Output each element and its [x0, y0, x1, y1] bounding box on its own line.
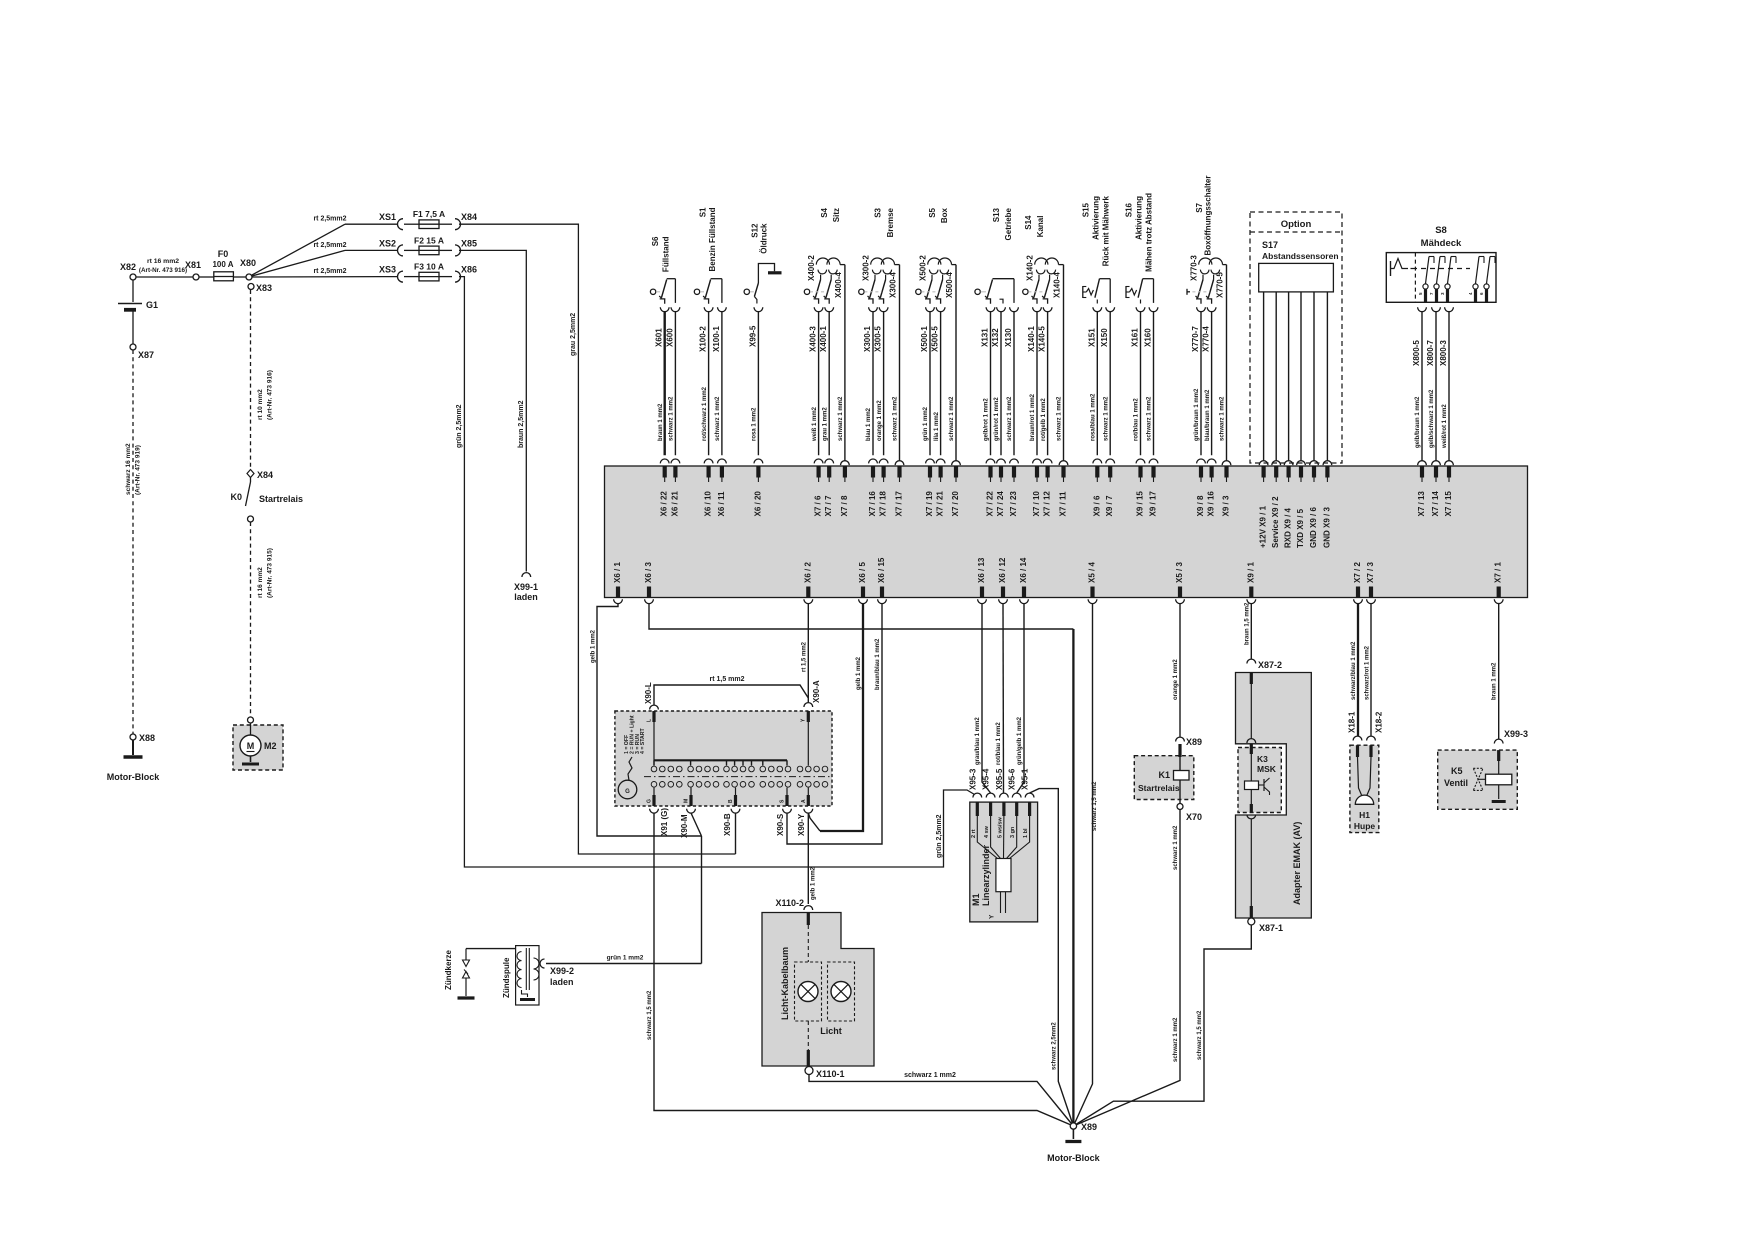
wire S17 Service X9/2	[1272, 292, 1281, 482]
fuse F3 10 A	[414, 262, 444, 281]
pin X6/13	[977, 557, 986, 604]
svg-text:F2 15 A: F2 15 A	[414, 235, 444, 245]
svg-text:Box: Box	[940, 207, 949, 223]
lamp holder right	[828, 962, 855, 1021]
svg-text:100 A: 100 A	[212, 260, 233, 269]
wire X400-1 grau 1 mm2	[822, 312, 833, 482]
svg-text:K3: K3	[1257, 754, 1268, 764]
connector X86	[455, 265, 477, 283]
switch S16	[1126, 279, 1154, 304]
wire X5/4 to X89	[1073, 604, 1098, 1126]
svg-text:X90-B: X90-B	[723, 813, 732, 836]
wire S17 TXD X9/5	[1297, 292, 1306, 482]
connector XS3	[379, 265, 403, 283]
svg-text:S15: S15	[1081, 202, 1090, 217]
connector XS1	[379, 212, 403, 230]
svg-text:X9 / 1: X9 / 1	[1246, 562, 1255, 583]
node X89	[1070, 1122, 1097, 1132]
svg-text:gelb/rot 1 mm2: gelb/rot 1 mm2	[984, 398, 990, 441]
pin X5/3	[1175, 562, 1184, 604]
connector X70	[1177, 804, 1202, 823]
svg-text:X300-1: X300-1	[863, 326, 872, 352]
svg-text:X6 / 3: X6 / 3	[644, 562, 653, 583]
svg-text:X600: X600	[665, 328, 674, 347]
svg-text:RXD X9 / 4: RXD X9 / 4	[1284, 507, 1293, 548]
pin X6/22	[660, 491, 669, 517]
svg-text:X800-7: X800-7	[1426, 340, 1435, 366]
wire X90-Y to X6/5 gelb 1 mm2	[808, 604, 863, 831]
ignition pin letter M	[684, 799, 690, 803]
svg-text:X500-1: X500-1	[920, 326, 929, 352]
svg-text:X87: X87	[138, 350, 154, 360]
wire X6/1 gelb 1 mm2	[591, 604, 702, 836]
svg-text:X5 / 3: X5 / 3	[1175, 562, 1184, 583]
wire X87-1 internal lower	[1247, 804, 1256, 918]
wire X300-1 blau 1 mm2	[866, 312, 877, 482]
svg-text:orange 1 mm2: orange 1 mm2	[1173, 659, 1179, 700]
ground Zuendspule	[520, 998, 535, 1001]
pin X9/8	[1196, 495, 1205, 516]
connector X99-2 laden	[540, 959, 574, 987]
svg-text:X9 / 6: X9 / 6	[1092, 495, 1101, 516]
svg-text:X9 / 8: X9 / 8	[1196, 495, 1205, 516]
svg-text:X9 / 17: X9 / 17	[1149, 491, 1158, 517]
connector X100-1	[712, 307, 726, 352]
svg-text:X770-5: X770-5	[1216, 272, 1225, 298]
svg-text:X140-2: X140-2	[1026, 255, 1035, 281]
svg-text:rot/blau 1 mm2: rot/blau 1 mm2	[1134, 398, 1140, 441]
wire X770-7 grün/braun 1 mm2	[1194, 312, 1205, 482]
switch S7	[1187, 258, 1227, 304]
svg-text:braun 2,5mm2: braun 2,5mm2	[518, 400, 525, 448]
ignition contact rows	[651, 766, 828, 787]
connector X110-1	[805, 1067, 845, 1080]
pin GND X9/3	[1322, 507, 1331, 548]
switch S3 label	[874, 207, 895, 237]
wire S17 RXD X9/4	[1284, 292, 1293, 482]
valve K5 box	[1438, 750, 1518, 809]
svg-text:grün 1 mm2: grün 1 mm2	[923, 406, 929, 441]
svg-text:X90-Y: X90-Y	[797, 813, 806, 836]
svg-text:X7 / 1: X7 / 1	[1494, 562, 1503, 583]
connector X110-2	[775, 898, 812, 910]
svg-text:rt 1,5 mm2: rt 1,5 mm2	[802, 641, 808, 672]
pin X9/7	[1105, 495, 1114, 516]
connector X500-1	[920, 307, 934, 352]
wire X500-5 lila 1 mm2	[934, 312, 945, 482]
svg-text:X6 / 1: X6 / 1	[613, 562, 622, 583]
svg-text:X99-2: X99-2	[550, 966, 574, 976]
svg-text:X88: X88	[139, 733, 155, 743]
svg-text:X6 / 14: X6 / 14	[1019, 557, 1028, 583]
wire fuse-X86	[439, 276, 452, 278]
svg-text:Rück mit Mähwerk: Rück mit Mähwerk	[1101, 195, 1110, 266]
pin X6/14	[1019, 557, 1028, 604]
pin X7/23	[1009, 491, 1018, 517]
pin X6/2	[803, 562, 812, 604]
relay K0 Startrelais switch	[230, 478, 303, 507]
svg-text:rosa/blau 1 mm2: rosa/blau 1 mm2	[1091, 393, 1097, 441]
svg-text:schwarz 1 mm2: schwarz 1 mm2	[715, 396, 721, 441]
svg-text:X800-3: X800-3	[1439, 340, 1448, 366]
svg-text:X300-4: X300-4	[889, 272, 898, 298]
pin X6/21	[670, 491, 679, 517]
pin Service X9/2	[1271, 496, 1280, 548]
svg-text:X7 / 16: X7 / 16	[868, 491, 877, 517]
svg-text:X7 / 11: X7 / 11	[1059, 491, 1068, 516]
svg-text:X9 / 16: X9 / 16	[1207, 491, 1216, 517]
battery G1	[118, 300, 158, 316]
svg-text:X6 / 12: X6 / 12	[998, 557, 1007, 583]
svg-text:X90-S: X90-S	[776, 813, 785, 836]
svg-text:+12V X9 / 1: +12V X9 / 1	[1259, 505, 1268, 548]
pin X7/6	[814, 495, 823, 516]
wire X7/1 braun 1 mm2	[1492, 604, 1499, 739]
svg-text:X150: X150	[1100, 328, 1109, 347]
svg-text:X7 / 6: X7 / 6	[814, 495, 823, 516]
wire S17 GND X9/3	[1323, 292, 1332, 482]
svg-text:schwarz 1,5 mm2: schwarz 1,5 mm2	[1197, 1010, 1203, 1060]
svg-text:grün/rot 1 mm2: grün/rot 1 mm2	[994, 397, 1000, 441]
wire X95-5 to X6/12	[996, 604, 1004, 793]
svg-text:grau/blau 1 mm2: grau/blau 1 mm2	[975, 717, 981, 765]
svg-text:Adapter EMAK (AV): Adapter EMAK (AV)	[1292, 822, 1302, 905]
connector X95-5	[995, 768, 1008, 797]
svg-text:X7 / 15: X7 / 15	[1444, 491, 1453, 517]
svg-text:schwarz/rot 1 mm2: schwarz/rot 1 mm2	[1365, 645, 1371, 700]
svg-text:X87-1: X87-1	[1259, 923, 1283, 933]
ignition coil Zuendspule	[502, 946, 539, 1005]
wire X95-1 to X89	[1030, 789, 1074, 1126]
ignition pin letter S	[780, 799, 786, 803]
svg-text:braun 1 mm2: braun 1 mm2	[658, 403, 664, 441]
svg-text:laden: laden	[514, 592, 538, 602]
svg-text:S6: S6	[651, 236, 660, 246]
svg-text:rt 2,5mm2: rt 2,5mm2	[313, 268, 346, 275]
pin GND X9/6	[1309, 507, 1318, 548]
svg-text:Startrelais: Startrelais	[1138, 783, 1180, 793]
svg-text:blau/braun 1 mm2: blau/braun 1 mm2	[1205, 389, 1211, 441]
wire X99-2 gruen 1 mm2	[546, 955, 702, 964]
svg-text:X81: X81	[185, 260, 201, 270]
wire X770-4 blau/braun 1 mm2	[1205, 312, 1216, 482]
svg-text:Aktivierung: Aktivierung	[1135, 196, 1144, 240]
ignition mechanical link	[644, 776, 830, 778]
wire X7/3 schwarz/rot 1 mm2	[1365, 604, 1372, 736]
wire X140-5 rot/gelb 1 mm2	[1041, 312, 1052, 482]
svg-text:rt 16 mm2: rt 16 mm2	[257, 567, 264, 598]
pin X6/5	[858, 562, 867, 604]
ground M2	[242, 756, 259, 764]
svg-text:1 bl: 1 bl	[1023, 828, 1029, 838]
svg-text:K1: K1	[1158, 770, 1170, 780]
svg-text:grün 1 mm2: grün 1 mm2	[607, 955, 644, 962]
wire X400-4 schwarz 1 mm2	[838, 265, 849, 482]
svg-text:X131: X131	[981, 328, 990, 347]
svg-text:S1: S1	[699, 207, 708, 217]
pin X9/6	[1092, 495, 1101, 516]
svg-text:schwarz/blau 1 mm2: schwarz/blau 1 mm2	[1351, 641, 1357, 700]
connector X800-3	[1439, 307, 1453, 366]
wire X87-1 to X89 schwarz 1,5 mm2	[1073, 925, 1251, 1126]
svg-text:S14: S14	[1024, 215, 1033, 230]
connector below K0	[248, 516, 254, 522]
pin X7/8	[840, 495, 849, 516]
pin X7/22	[986, 491, 995, 517]
actuator M1 label	[971, 844, 991, 906]
wire G1-X87	[132, 316, 134, 344]
light harness box Licht-Kabelbaum	[762, 913, 874, 1067]
svg-text:G: G	[625, 789, 630, 795]
svg-text:grün 2,5mm2: grün 2,5mm2	[456, 404, 463, 448]
svg-text:Ventil: Ventil	[1444, 778, 1468, 788]
connector X90-L	[644, 682, 658, 709]
wire X132 gruen/rot 1 mm2	[994, 312, 1005, 482]
svg-text:lila 1 mm2: lila 1 mm2	[934, 411, 940, 441]
svg-text:grau 2,5mm2: grau 2,5mm2	[570, 313, 577, 356]
svg-text:Benzin Füllstand: Benzin Füllstand	[708, 207, 717, 271]
svg-text:X7 / 22: X7 / 22	[986, 491, 995, 517]
svg-text:X6 / 2: X6 / 2	[803, 562, 812, 583]
switch S15 label	[1081, 195, 1110, 266]
svg-text:X6 / 20: X6 / 20	[753, 491, 762, 517]
svg-text:X89: X89	[1081, 1122, 1097, 1132]
wire X100-2 rot/schwarz 1 mm2	[702, 312, 713, 482]
wire X131 gelb/rot 1 mm2	[984, 312, 995, 482]
ignition key symbol	[618, 757, 637, 799]
svg-text:X7 / 2: X7 / 2	[1353, 562, 1362, 583]
switch S6 Fuellstand label	[651, 236, 671, 272]
svg-text:X6 / 21: X6 / 21	[670, 491, 679, 517]
svg-text:K5: K5	[1451, 766, 1463, 776]
pin X9/1	[1246, 562, 1255, 604]
label rt 2,5mm2 row XS3	[313, 268, 346, 275]
connector X87	[130, 344, 154, 360]
pin X7/14	[1431, 491, 1440, 517]
connector X82	[120, 262, 136, 280]
relay K3 MSK	[1245, 754, 1277, 804]
connector X90-Y	[797, 809, 813, 836]
svg-text:X400-2: X400-2	[807, 255, 816, 281]
svg-text:S17: S17	[1262, 240, 1278, 250]
svg-text:F3 10 A: F3 10 A	[414, 262, 444, 272]
wire X84 riser grau 2,5mm2	[459, 224, 736, 854]
svg-text:weiß/rot 1 mm2: weiß/rot 1 mm2	[1442, 404, 1448, 449]
svg-text:S5: S5	[928, 207, 937, 217]
connector X80	[240, 258, 256, 280]
wire X130 schwarz 1 mm2	[1007, 312, 1018, 482]
wire X300-5 orange 1 mm2	[877, 312, 888, 482]
svg-text:X6 / 11: X6 / 11	[717, 491, 726, 516]
connector X300-5	[874, 307, 888, 352]
svg-text:schwarz 1 mm2: schwarz 1 mm2	[1057, 396, 1063, 441]
svg-text:X7 / 8: X7 / 8	[840, 495, 849, 516]
adapter EMAK box	[1236, 673, 1312, 919]
ignition pin letter A	[801, 799, 807, 803]
wire X90-M jog	[691, 813, 702, 836]
connector X95-3	[968, 768, 981, 797]
connector X140-4	[1053, 272, 1062, 298]
pin +12V X9/1	[1259, 505, 1268, 548]
svg-text:X400-4: X400-4	[834, 272, 843, 298]
svg-text:X132: X132	[991, 328, 1000, 347]
connector X500-5	[931, 307, 945, 352]
switch S7 label	[1195, 176, 1213, 256]
ignition key legend	[624, 715, 646, 754]
svg-text:grün/braun 1 mm2: grün/braun 1 mm2	[1194, 388, 1200, 441]
svg-text:X89: X89	[1186, 737, 1202, 747]
wire X5/3 to X89 orange 1 mm2	[1173, 604, 1180, 737]
switch S8 Maehdeck label	[1421, 225, 1462, 249]
actuator M1 internal wiring	[971, 802, 1030, 858]
wire X800-7 gelb/schwarz 1 mm2	[1429, 312, 1440, 482]
pin X7/12	[1043, 491, 1052, 517]
connector X300-1	[863, 307, 877, 352]
switch S5	[916, 258, 956, 304]
wire X80 branch to fuse row 3	[252, 276, 398, 278]
svg-text:F0: F0	[218, 249, 229, 259]
connector X500-2	[919, 255, 928, 281]
switch S13 Getriebe label	[992, 207, 1013, 240]
pin X6/10	[704, 491, 713, 517]
svg-text:(Art-Nr. 473 916): (Art-Nr. 473 916)	[267, 370, 274, 420]
svg-text:gelb 1 mm2: gelb 1 mm2	[811, 866, 817, 900]
connector X90-S	[776, 809, 791, 836]
switch S4 label	[820, 207, 841, 222]
svg-text:Zündspule: Zündspule	[502, 957, 511, 998]
svg-text:Mähen trotz Abstand: Mähen trotz Abstand	[1145, 193, 1154, 272]
svg-text:schwarz 1 mm2: schwarz 1 mm2	[1220, 396, 1226, 441]
svg-text:A: A	[801, 799, 807, 803]
svg-text:2 rt: 2 rt	[971, 829, 977, 838]
svg-text:M2: M2	[264, 741, 277, 751]
wire X90-Y to X110-2 gelb 1 mm2	[808, 813, 816, 904]
svg-text:Motor-Block: Motor-Block	[107, 772, 160, 782]
wire X80 branch to fuse row 1	[252, 224, 398, 275]
svg-text:rot/schwarz 1 mm2: rot/schwarz 1 mm2	[702, 386, 708, 441]
svg-text:(Art-Nr. 473 915): (Art-Nr. 473 915)	[267, 548, 274, 598]
pin X6/11	[717, 491, 726, 516]
connector X300-2	[862, 255, 871, 281]
svg-text:X300-5: X300-5	[874, 326, 883, 352]
svg-text:Mähdeck: Mähdeck	[1421, 238, 1462, 249]
connector X400-3	[809, 307, 823, 352]
svg-text:Hupe: Hupe	[1354, 821, 1376, 831]
svg-text:S12: S12	[751, 223, 760, 238]
relay K1 box	[1134, 756, 1194, 800]
pin X5/4	[1088, 562, 1097, 604]
svg-text:X7 / 24: X7 / 24	[996, 491, 1005, 517]
svg-text:gelb/braun 1 mm2: gelb/braun 1 mm2	[1415, 396, 1421, 448]
relay K1 Startrelais	[1138, 744, 1189, 804]
wire X87-2 internal upper	[1247, 673, 1256, 755]
svg-text:X100-2: X100-2	[699, 326, 708, 352]
pin X7/18	[879, 491, 888, 517]
svg-text:X95-3: X95-3	[968, 768, 977, 790]
svg-text:X7 / 21: X7 / 21	[936, 491, 945, 517]
svg-text:rosa 1 mm2: rosa 1 mm2	[752, 407, 758, 441]
svg-text:X9 / 3: X9 / 3	[1222, 495, 1231, 516]
pin X6/15	[877, 557, 886, 604]
connector X99-3	[1494, 729, 1528, 744]
connector X800-7	[1426, 307, 1440, 366]
connector X770-3	[1190, 255, 1199, 281]
svg-text:X7 / 13: X7 / 13	[1417, 491, 1426, 517]
pin X7/11	[1059, 491, 1068, 516]
connector X770-5	[1216, 272, 1225, 298]
connector X88	[130, 733, 155, 743]
switch S1 Benzin Fuellstand label	[699, 207, 718, 272]
svg-text:(Art-Nr. 473 919): (Art-Nr. 473 919)	[135, 445, 142, 495]
svg-text:Option: Option	[1281, 219, 1312, 230]
sensor module S17 Abstandssensoren	[1259, 240, 1339, 292]
svg-text:Öldruck: Öldruck	[760, 223, 769, 254]
ignition pin G	[652, 788, 655, 806]
ignition pin A	[807, 788, 810, 806]
wire X95-4 to X6/13	[975, 604, 991, 793]
svg-text:schwarz 1 mm2: schwarz 1 mm2	[1147, 396, 1153, 441]
pin X7/10	[1032, 491, 1041, 517]
svg-text:Startrelais: Startrelais	[259, 494, 303, 504]
wire X87-X88 schwarz 16 mm2	[125, 350, 142, 734]
actuator M1 box	[970, 802, 1038, 922]
svg-text:schwarz 1,5 mm2: schwarz 1,5 mm2	[1092, 781, 1098, 831]
svg-text:X6 / 15: X6 / 15	[877, 557, 886, 583]
svg-text:4 sw: 4 sw	[984, 825, 990, 838]
svg-text:XS2: XS2	[379, 238, 396, 248]
svg-text:grau 1 mm2: grau 1 mm2	[822, 407, 828, 441]
svg-text:X84: X84	[461, 212, 477, 222]
pin X7/24	[996, 491, 1005, 517]
svg-text:braun/blau 1 mm2: braun/blau 1 mm2	[875, 638, 881, 690]
svg-text:X18-1: X18-1	[1348, 711, 1357, 733]
svg-text:X90-L: X90-L	[644, 682, 653, 704]
svg-text:Motor-Block: Motor-Block	[1047, 1153, 1100, 1163]
switch S12 Oeldruck label	[751, 223, 769, 254]
svg-text:rt 10 mm2: rt 10 mm2	[257, 389, 264, 420]
svg-text:M: M	[247, 741, 255, 751]
connector X800-5	[1412, 307, 1426, 366]
svg-text:Licht: Licht	[820, 1026, 842, 1036]
connector X83	[248, 283, 272, 293]
label Licht	[820, 1026, 842, 1036]
lamp holder left	[795, 962, 822, 1021]
svg-text:Bremse: Bremse	[886, 207, 895, 237]
svg-text:XS3: XS3	[379, 265, 396, 275]
connector X99-5	[748, 307, 762, 347]
wire X91 (G) schwarz 1,5 mm2	[647, 813, 1073, 1126]
motor M2	[240, 723, 277, 756]
svg-text:X7 / 10: X7 / 10	[1032, 491, 1041, 517]
wire X300-4 schwarz 1 mm2	[893, 265, 904, 482]
svg-text:rt 16 mm2: rt 16 mm2	[147, 258, 179, 265]
svg-text:X140-5: X140-5	[1038, 326, 1047, 352]
svg-text:X99-5: X99-5	[748, 325, 757, 347]
switch S13 Getriebe	[975, 279, 1014, 304]
ignition pin Y	[807, 711, 810, 766]
svg-text:X7 / 20: X7 / 20	[951, 491, 960, 517]
connector X400-4	[834, 272, 843, 298]
connector X400-2	[807, 255, 816, 281]
svg-text:schwarz 1 mm2: schwarz 1 mm2	[1173, 1017, 1179, 1062]
connector X90-B	[723, 809, 740, 836]
svg-text:X95-1: X95-1	[1021, 768, 1030, 790]
ignition pin letter Y	[801, 718, 807, 722]
wire fuse-X84	[439, 223, 452, 225]
pin X7/20	[951, 491, 960, 517]
connector X500-4	[945, 272, 954, 298]
wire X500-1 grün 1 mm2	[923, 312, 934, 482]
